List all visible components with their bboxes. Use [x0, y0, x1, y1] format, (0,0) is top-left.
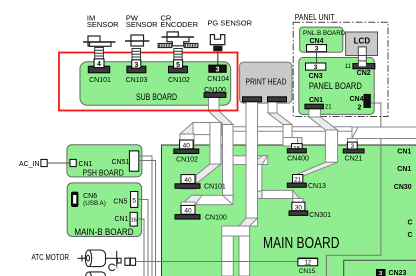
svg-text:C: C — [408, 232, 413, 239]
svg-text:CN23: CN23 — [389, 270, 407, 276]
svg-text:CN51: CN51 — [112, 159, 130, 166]
main CN102 — [174, 140, 199, 164]
ribbon cable sub CN100 branch right — [233, 156, 268, 194]
CN51 connector PSH — [112, 151, 139, 171]
main CN23 — [377, 270, 407, 276]
CN103 sub connector — [126, 66, 148, 84]
svg-text:PSH BOARD: PSH BOARD — [83, 168, 124, 178]
svg-text:CN3: CN3 — [309, 73, 323, 80]
print head — [240, 62, 292, 103]
IM striped cable — [95, 48, 104, 59]
ATC motor connector — [125, 258, 136, 265]
red highlight rectangle — [59, 53, 238, 111]
svg-text:C: C — [408, 220, 413, 227]
ATC motor icon — [78, 250, 122, 271]
panel CN1 — [305, 97, 332, 111]
main CN13 — [287, 175, 326, 191]
svg-text:40: 40 — [184, 208, 192, 215]
svg-text:12: 12 — [304, 261, 311, 267]
svg-text:MAIN-B BOARD: MAIN-B BOARD — [74, 227, 134, 237]
second board bottom right — [344, 260, 416, 276]
ATC wire — [136, 261, 298, 263]
svg-text:CN2: CN2 — [357, 70, 371, 77]
CR encoder icon — [158, 32, 198, 48]
svg-text:PNL.B BOARD: PNL.B BOARD — [303, 30, 346, 37]
main CN100 — [175, 205, 227, 221]
svg-text:CN301: CN301 — [309, 212, 331, 219]
IM sensor icon — [83, 36, 116, 46]
svg-text:PANEL BOARD: PANEL BOARD — [309, 81, 362, 91]
svg-text:CN5: CN5 — [113, 199, 127, 206]
svg-text:CN102: CN102 — [168, 77, 190, 84]
svg-text:40: 40 — [184, 177, 192, 184]
svg-text:30: 30 — [295, 204, 303, 211]
CR connector box 5 — [174, 60, 183, 69]
svg-text:CN15: CN15 — [299, 268, 316, 275]
PG wire — [217, 51, 219, 66]
PNL.B board — [300, 27, 343, 52]
svg-text:CN1: CN1 — [309, 97, 323, 104]
CN104 black connector — [207, 65, 229, 83]
svg-text:SENSOR: SENSOR — [126, 20, 158, 29]
PW sensor label — [126, 14, 158, 29]
svg-text:CN4: CN4 — [350, 96, 364, 103]
svg-text:2: 2 — [358, 105, 362, 112]
ribbon cable to main CN301 — [252, 190, 303, 207]
svg-text:CN1: CN1 — [397, 166, 411, 173]
CN1 connector MAIN-B — [115, 212, 138, 226]
link wire CN4 to CN3 — [316, 52, 318, 63]
CN2 connector — [345, 47, 375, 77]
panel CN4 — [350, 94, 371, 111]
CN3 connector — [306, 63, 326, 80]
svg-text:4: 4 — [97, 61, 101, 68]
svg-text:PRINT HEAD: PRINT HEAD — [246, 77, 287, 86]
ribbon cable right edge — [347, 127, 416, 144]
svg-text:CN101: CN101 — [89, 77, 111, 84]
wires from CN51 CN5 CN1 — [137, 156, 155, 276]
PW striped cable — [132, 49, 141, 60]
svg-text:3: 3 — [216, 66, 220, 73]
main CN400 — [287, 144, 309, 163]
sub board — [80, 62, 231, 105]
MAIN-B board — [67, 183, 141, 237]
wire CN4 to bottom — [326, 103, 381, 276]
svg-text:CN30: CN30 — [394, 184, 412, 191]
svg-text:AC_IN: AC_IN — [19, 161, 40, 168]
main board — [162, 145, 416, 276]
ribbon cable print head 1 — [222, 99, 258, 276]
PNL.B board texts — [303, 30, 346, 53]
svg-text:CN104: CN104 — [207, 76, 229, 83]
IM connector box 4 — [94, 59, 104, 68]
svg-text:SENSOR: SENSOR — [87, 20, 119, 29]
svg-text:SUB BOARD: SUB BOARD — [136, 92, 177, 102]
main CN15 — [298, 257, 318, 274]
PG sensor icon — [210, 35, 225, 51]
panel board — [299, 58, 374, 115]
svg-text:CN1: CN1 — [397, 149, 411, 156]
svg-text:CN13: CN13 — [308, 183, 326, 190]
PSH board — [67, 145, 142, 177]
right edge labels — [394, 149, 413, 240]
ribbon cable print head 2 to CN400 — [268, 99, 302, 149]
svg-text:CN21: CN21 — [345, 156, 363, 163]
AC_IN — [19, 159, 93, 168]
svg-text:CN4: CN4 — [309, 38, 323, 45]
svg-text:CN6: CN6 — [83, 193, 97, 200]
PW sensor icon — [125, 35, 149, 46]
svg-text:11: 11 — [345, 64, 352, 70]
ribbon cable sub CN100 to main — [181, 97, 233, 208]
svg-text:MAIN BOARD: MAIN BOARD — [263, 235, 340, 252]
svg-text:ATC MOTOR: ATC MOTOR — [32, 252, 70, 262]
main CN101 — [175, 175, 226, 191]
svg-text:40: 40 — [183, 142, 191, 149]
PW connector box 3 — [132, 60, 141, 69]
main CN21 — [343, 142, 364, 162]
CN100 sub connector — [204, 87, 226, 97]
print head connectors — [243, 97, 287, 102]
svg-text:21: 21 — [294, 177, 302, 184]
svg-text:PG SENSOR: PG SENSOR — [207, 19, 252, 28]
svg-text:5: 5 — [176, 62, 180, 69]
svg-text:CN1: CN1 — [115, 216, 129, 223]
svg-text:CN400: CN400 — [287, 156, 309, 163]
svg-text:LCD: LCD — [354, 37, 371, 46]
ribbon cable main CN102 — [180, 123, 222, 151]
svg-text:5: 5 — [132, 198, 136, 205]
CN102 sub connector — [168, 66, 190, 84]
LCD — [346, 32, 378, 56]
svg-text:21: 21 — [325, 105, 332, 111]
USB connector CN6 — [72, 192, 106, 207]
ribbon cable panel CN1 to CN13 — [293, 109, 338, 176]
CN101 sub connector — [88, 66, 111, 84]
panel unit dash-dot border — [293, 22, 388, 116]
svg-text:CN102: CN102 — [176, 157, 198, 164]
ribbon cable main CN101 feeder — [181, 123, 221, 190]
svg-text:3: 3 — [315, 46, 319, 53]
svg-text:ENCODER: ENCODER — [161, 20, 199, 29]
svg-text:3: 3 — [314, 64, 318, 71]
svg-text:CN100: CN100 — [205, 215, 227, 222]
wires to CN21 area — [222, 127, 352, 131]
CR encoder label — [161, 14, 199, 29]
svg-text:16: 16 — [131, 218, 137, 224]
CR striped cable — [174, 49, 182, 60]
CN5 connector — [113, 192, 137, 208]
svg-text:(USB A): (USB A) — [83, 200, 106, 207]
svg-text:3: 3 — [379, 271, 382, 276]
IM sensor label — [87, 14, 119, 29]
main CN301 — [289, 202, 331, 219]
svg-text:PANEL UNIT: PANEL UNIT — [295, 13, 335, 22]
svg-text:CN103: CN103 — [126, 77, 148, 84]
svg-text:CN101: CN101 — [204, 184, 226, 191]
svg-text:3: 3 — [134, 62, 138, 69]
second motor partial — [85, 272, 105, 276]
